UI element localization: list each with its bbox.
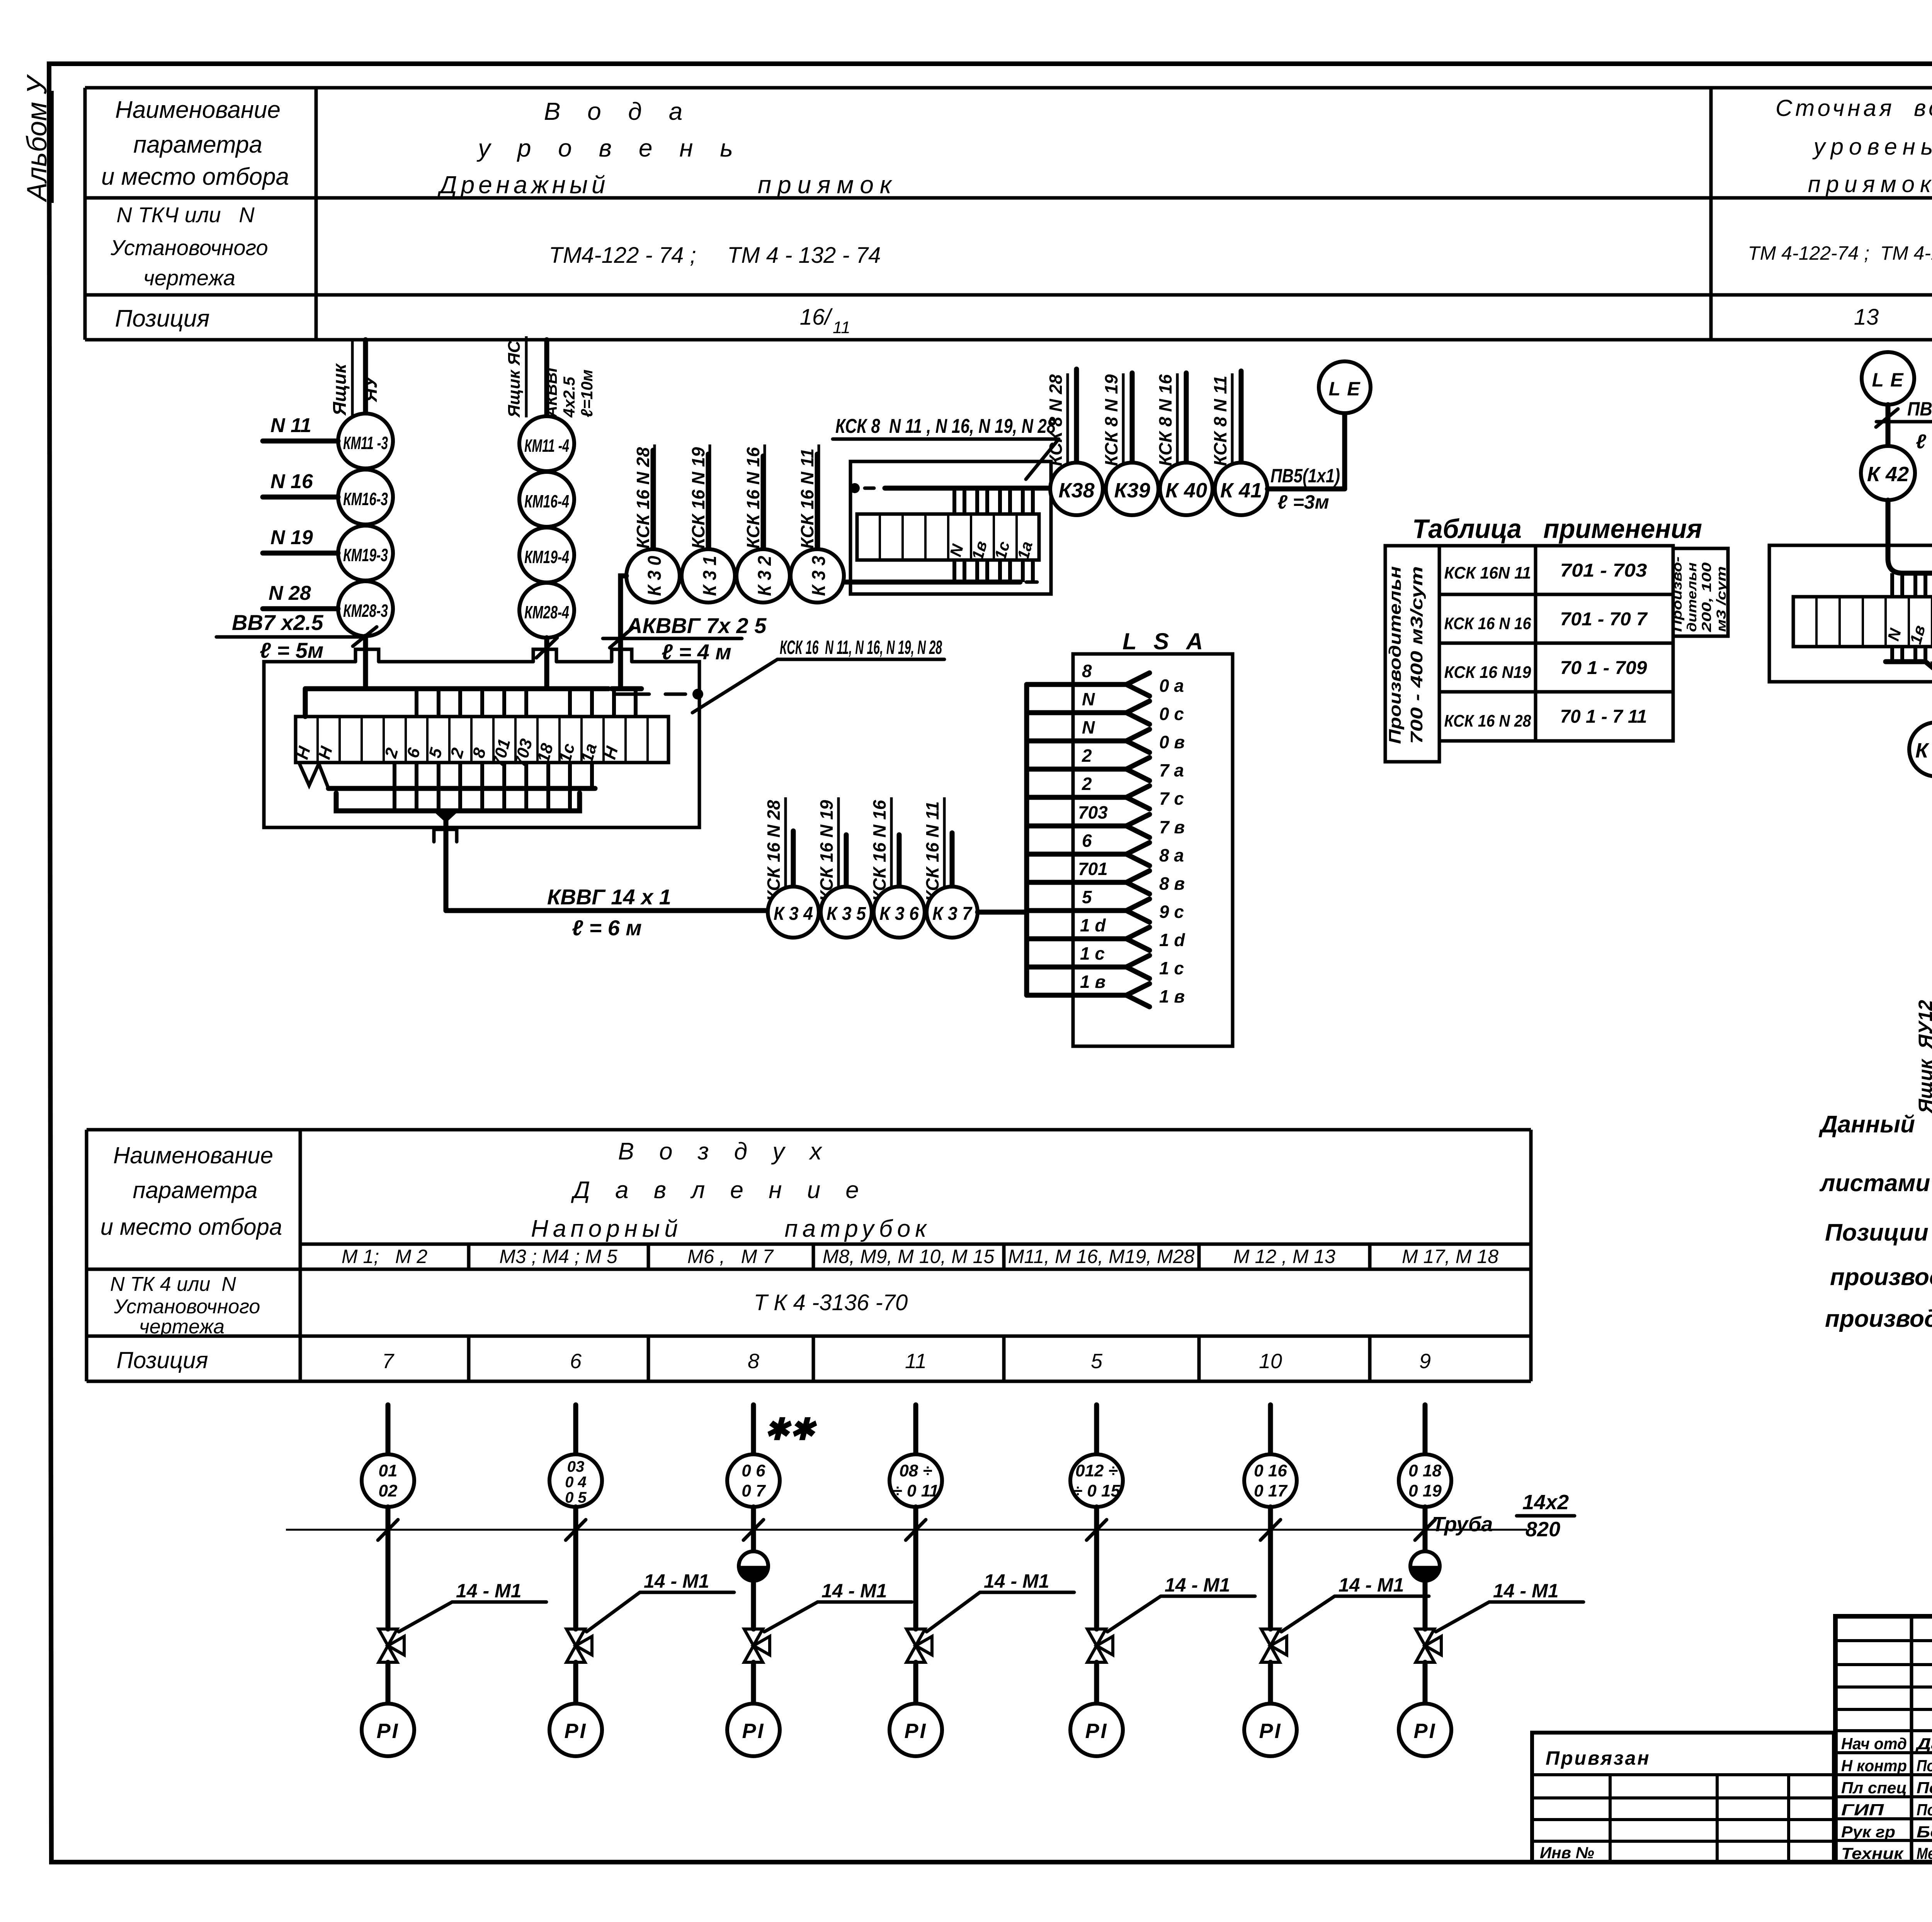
svg-text:N: N [1082, 717, 1095, 737]
svg-text:В о з д у х: В о з д у х [618, 1138, 831, 1165]
svg-text:и место отбора: и место отбора [100, 1214, 282, 1240]
svg-text:РI: РI [376, 1719, 399, 1743]
svg-text:ℓ = 3 м: ℓ = 3 м [1916, 431, 1932, 453]
svg-text:КСК 16 N 19: КСК 16 N 19 [816, 800, 837, 902]
svg-text:0 с: 0 с [1159, 704, 1184, 724]
svg-text:14 - М1: 14 - М1 [644, 1570, 709, 1592]
svg-text:М6 , М 7: М6 , М 7 [687, 1246, 774, 1267]
svg-text:8: 8 [1082, 661, 1092, 681]
svg-text:К 3 6: К 3 6 [879, 904, 919, 924]
svg-text:КСК 8 N 16: КСК 8 N 16 [1155, 374, 1175, 466]
svg-text:РI: РI [1085, 1719, 1108, 1743]
svg-text:КСК 16 N 16: КСК 16 N 16 [743, 447, 763, 549]
svg-text:КСК 16 N 16: КСК 16 N 16 [1444, 614, 1531, 633]
svg-text:КСК 16 N 11: КСК 16 N 11 [797, 448, 817, 549]
svg-text:К 3 0: К 3 0 [645, 556, 665, 596]
svg-text:14 - М1: 14 - М1 [1493, 1580, 1559, 1602]
svg-text:012 ÷: 012 ÷ [1075, 1461, 1118, 1480]
svg-text:Привязан: Привязан [1546, 1747, 1651, 1769]
svg-text:14 - М1: 14 - М1 [984, 1570, 1049, 1592]
svg-text:К39: К39 [1114, 479, 1150, 502]
svg-text:параметра: параметра [133, 1177, 258, 1203]
svg-text:8: 8 [748, 1350, 759, 1373]
svg-text:Произво-: Произво- [1670, 557, 1685, 632]
svg-text:В о д а: В о д а [544, 97, 693, 125]
svg-text:0 5: 0 5 [565, 1489, 587, 1506]
svg-text:АКВВГ: АКВВГ [542, 361, 560, 418]
svg-text:2: 2 [1082, 746, 1092, 766]
svg-text:К 41: К 41 [1220, 479, 1262, 502]
svg-text:L Е: L Е [1872, 369, 1904, 391]
svg-text:Инв №: Инв № [1540, 1844, 1594, 1862]
svg-text:ТМ4-122 - 74 ; ТМ 4 - 132: ТМ4-122 - 74 ; ТМ 4 - 132 - 74 [549, 243, 881, 268]
svg-text:К 3 7: К 3 7 [932, 904, 973, 924]
svg-text:16/: 16/ [800, 305, 833, 330]
svg-text:РI: РI [742, 1719, 765, 1743]
svg-text:1 в: 1 в [1159, 986, 1185, 1006]
svg-text:К 3 5: К 3 5 [827, 904, 866, 924]
svg-text:200, 100: 200, 100 [1699, 562, 1714, 632]
svg-text:АКВВГ 7х 2 5: АКВВГ 7х 2 5 [626, 613, 767, 638]
svg-text:Д а в л е н и е: Д а в л е н и е [571, 1177, 868, 1204]
svg-text:КМ16-3: КМ16-3 [343, 489, 388, 509]
svg-text:5: 5 [1082, 887, 1092, 907]
svg-text:КСК 16 N 16: КСК 16 N 16 [869, 800, 889, 902]
svg-text:9 с: 9 с [1159, 902, 1184, 922]
svg-text:КВВГ 14 х 1: КВВГ 14 х 1 [547, 885, 671, 909]
svg-text:Боева: Боева [1917, 1823, 1932, 1841]
svg-text:Установочного: Установочного [110, 235, 268, 260]
svg-text:дительн: дительн [1685, 562, 1699, 632]
svg-text:03: 03 [567, 1458, 585, 1475]
svg-text:Техник: Техник [1841, 1844, 1904, 1862]
svg-text:7 в: 7 в [1159, 817, 1185, 837]
svg-text:приямок: приямок [1808, 171, 1932, 197]
svg-text:ВВ7 х2.5: ВВ7 х2.5 [232, 610, 323, 635]
svg-text:Наименование: Наименование [113, 1142, 273, 1168]
svg-text:11: 11 [833, 318, 850, 337]
svg-text:КМ16-4: КМ16-4 [524, 491, 569, 511]
svg-text:Меновщикова: Меновщикова [1917, 1844, 1932, 1862]
svg-text:Ящик: Ящик [330, 363, 350, 416]
svg-text:Н контр: Н контр [1841, 1757, 1907, 1775]
svg-text:0 4: 0 4 [565, 1474, 587, 1491]
svg-text:701 - 703: 701 - 703 [1560, 560, 1647, 581]
svg-text:701: 701 [1078, 859, 1108, 879]
svg-text:КСК 8 N 11: КСК 8 N 11 [1210, 376, 1230, 466]
svg-text:М 17, М 18: М 17, М 18 [1402, 1246, 1498, 1267]
svg-text:КМ11 -3: КМ11 -3 [343, 433, 388, 453]
svg-text:чертежа: чертежа [143, 266, 235, 290]
svg-text:ℓ = 5м: ℓ = 5м [260, 638, 323, 662]
svg-text:М3 ; М4 ; М 5: М3 ; М4 ; М 5 [499, 1246, 617, 1267]
svg-text:÷ 0 11: ÷ 0 11 [893, 1481, 939, 1500]
svg-text:КМ19-3: КМ19-3 [343, 545, 388, 565]
svg-text:Труба: Труба [1432, 1513, 1493, 1536]
svg-text:КСК 8 N 28: КСК 8 N 28 [1046, 374, 1066, 466]
svg-text:Дренажный: Дренажный [437, 171, 609, 199]
svg-text:уровень: уровень [1812, 134, 1932, 160]
svg-text:КСК 16 N 28: КСК 16 N 28 [764, 800, 784, 902]
svg-text:ℓ =3м: ℓ =3м [1277, 491, 1329, 513]
svg-text:700 - 400 м3/сут: 700 - 400 м3/сут [1407, 566, 1426, 744]
svg-text:К 3 1: К 3 1 [700, 556, 720, 596]
svg-text:0 7: 0 7 [742, 1481, 766, 1500]
svg-text:Таблица применения: Таблица применения [1412, 514, 1702, 544]
svg-text:РI: РI [904, 1719, 927, 1743]
svg-text:70 1 - 7 11: 70 1 - 7 11 [1560, 706, 1647, 727]
svg-text:4х2.5: 4х2.5 [560, 376, 578, 418]
svg-text:2: 2 [1082, 774, 1092, 794]
svg-text:производительности 200 , 10: производительности 200 , 100 [1825, 1306, 1932, 1332]
svg-text:Данилов: Данилов [1915, 1735, 1932, 1753]
svg-text:9: 9 [1419, 1350, 1431, 1373]
svg-text:6: 6 [570, 1350, 582, 1373]
svg-text:14 - М1: 14 - М1 [1338, 1574, 1404, 1596]
svg-text:703: 703 [1078, 802, 1108, 822]
svg-text:1 в: 1 в [1080, 972, 1105, 992]
svg-text:N 16: N 16 [270, 470, 313, 493]
svg-text:Ящик ЯС: Ящик ЯС [505, 340, 524, 418]
svg-text:ЯУ: ЯУ [361, 375, 381, 403]
svg-text:N ТК 4 или N: N ТК 4 или N [110, 1273, 236, 1296]
svg-text:КМ28-4: КМ28-4 [524, 602, 569, 622]
svg-text:и место отбора: и место отбора [101, 163, 289, 190]
svg-text:14 - М1: 14 - М1 [456, 1580, 522, 1602]
svg-text:5: 5 [1091, 1350, 1103, 1373]
svg-text:КСК 16 N 11: КСК 16 N 11 [922, 801, 942, 902]
svg-text:КМ11 -4: КМ11 -4 [524, 436, 569, 456]
svg-text:Пл спец: Пл спец [1841, 1779, 1907, 1797]
svg-text:Позиции приборов в числи: Позиции приборов в числителе (соответств… [1825, 1219, 1932, 1246]
svg-text:К 42: К 42 [1867, 463, 1909, 486]
svg-text:ПВ5(1х1): ПВ5(1х1) [1270, 465, 1340, 487]
svg-text:ПВ5(1х1): ПВ5(1х1) [1907, 398, 1932, 420]
svg-text:К 40: К 40 [1165, 479, 1207, 502]
svg-text:10: 10 [1259, 1350, 1282, 1373]
svg-text:0 18: 0 18 [1408, 1461, 1442, 1480]
svg-text:М11, М 16, М19, М28: М11, М 16, М19, М28 [1008, 1246, 1195, 1267]
svg-text:N 19: N 19 [270, 526, 313, 549]
svg-text:8 а: 8 а [1159, 845, 1184, 865]
svg-text:0 в: 0 в [1159, 732, 1185, 752]
svg-text:0 19: 0 19 [1408, 1481, 1442, 1500]
svg-text:Польцман: Польцман [1917, 1779, 1932, 1797]
svg-text:14 - М1: 14 - М1 [1165, 1574, 1230, 1596]
svg-text:КМ28-3: КМ28-3 [343, 601, 388, 621]
svg-text:Сточная вода: Сточная вода [1776, 95, 1932, 121]
svg-text:0 17: 0 17 [1254, 1481, 1288, 1500]
svg-text:Позиция: Позиция [115, 305, 209, 332]
svg-text:Позиция: Позиция [116, 1347, 208, 1373]
svg-text:КМ19-4: КМ19-4 [524, 547, 569, 567]
svg-text:1 d: 1 d [1080, 915, 1106, 935]
svg-text:К 3 2: К 3 2 [755, 556, 775, 596]
svg-text:патрубок: патрубок [785, 1216, 931, 1242]
svg-text:70 1 - 709: 70 1 - 709 [1560, 658, 1647, 678]
svg-text:РI: РI [564, 1719, 587, 1743]
svg-text:1 с: 1 с [1159, 958, 1184, 978]
svg-text:Ящик ЯУ12: Ящик ЯУ12 [1915, 1000, 1932, 1114]
svg-text:14х2: 14х2 [1522, 1491, 1569, 1514]
svg-text:производительности 700, 400: производительности 700, 400 [1830, 1264, 1932, 1290]
svg-text:РI: РI [1259, 1719, 1282, 1743]
svg-text:6: 6 [1082, 831, 1092, 851]
svg-text:0 а: 0 а [1159, 676, 1184, 696]
svg-text:КСК 16 N 11, N 16, N 19, N 28: КСК 16 N 11, N 16, N 19, N 28 [780, 637, 942, 658]
svg-text:КСК 16 N 28: КСК 16 N 28 [633, 447, 653, 549]
svg-text:КСК 16 N 28: КСК 16 N 28 [1444, 712, 1531, 730]
svg-text:КСК 16 N 19: КСК 16 N 19 [688, 447, 708, 549]
svg-text:КСК 8 N 19: КСК 8 N 19 [1101, 374, 1121, 466]
svg-text:параметра: параметра [133, 131, 262, 158]
svg-text:ℓ=10м: ℓ=10м [578, 369, 596, 417]
svg-text:КСК 16 N19: КСК 16 N19 [1444, 663, 1531, 682]
svg-text:К 3 3: К 3 3 [809, 556, 829, 596]
svg-text:1 d: 1 d [1159, 930, 1185, 950]
svg-text:1 с: 1 с [1080, 943, 1105, 964]
svg-text:у р о в е н ь: у р о в е н ь [476, 134, 743, 162]
svg-text:Напорный: Напорный [531, 1216, 682, 1242]
svg-text:Данный лист читать со: Данный лист читать совместно с [1818, 1111, 1932, 1138]
svg-text:Т К 4 -3136 -70: Т К 4 -3136 -70 [754, 1290, 908, 1315]
svg-text:L Е: L Е [1329, 378, 1361, 400]
svg-text:7 с: 7 с [1159, 788, 1184, 809]
svg-text:0 16: 0 16 [1254, 1461, 1287, 1480]
svg-text:08 ÷: 08 ÷ [899, 1461, 932, 1480]
svg-text:÷ 0 15: ÷ 0 15 [1073, 1481, 1121, 1500]
svg-text:8 в: 8 в [1159, 873, 1185, 894]
svg-text:К 21: К 21 [1915, 739, 1932, 762]
svg-text:N: N [1082, 689, 1095, 709]
svg-text:Альбом У: Альбом У [22, 74, 53, 203]
svg-text:Рук гр: Рук гр [1841, 1823, 1895, 1841]
svg-text:КСК 8 N 11 , N 16, N 19, N 28: КСК 8 N 11 , N 16, N 19, N 28 [835, 415, 1056, 438]
svg-text:приямок: приямок [758, 171, 898, 199]
svg-text:13: 13 [1854, 305, 1879, 330]
svg-text:7 а: 7 а [1159, 760, 1184, 780]
svg-text:L S А: L S А [1122, 628, 1208, 654]
svg-text:11: 11 [905, 1350, 927, 1373]
svg-text:7: 7 [382, 1350, 395, 1373]
svg-text:К38: К38 [1058, 479, 1094, 502]
svg-text:М 12 , М 13: М 12 , М 13 [1233, 1246, 1335, 1267]
svg-text:Постн Ккова: Постн Ккова [1917, 1757, 1932, 1775]
svg-text:N ТКЧ или N: N ТКЧ или N [116, 203, 255, 227]
svg-text:✱✱: ✱✱ [764, 1412, 817, 1446]
svg-text:ГИП: ГИП [1841, 1801, 1884, 1819]
svg-text:чертежа: чертежа [139, 1316, 224, 1338]
svg-text:N 28: N 28 [269, 582, 311, 604]
svg-text:ТМ 4-122-74 ; ТМ 4-132 - 74: ТМ 4-122-74 ; ТМ 4-132 - 74 [1748, 242, 1932, 264]
svg-text:Производительн: Производительн [1386, 566, 1405, 744]
svg-text:Нач отд: Нач отд [1841, 1735, 1907, 1753]
svg-text:М 1; М 2: М 1; М 2 [342, 1246, 427, 1267]
svg-text:02: 02 [379, 1481, 398, 1500]
svg-text:ℓ = 6 м: ℓ = 6 м [572, 916, 642, 940]
svg-text:701 - 70 7: 701 - 70 7 [1560, 609, 1648, 630]
svg-text:м3 /сут: м3 /сут [1714, 566, 1729, 632]
svg-text:0 6: 0 6 [742, 1461, 765, 1480]
svg-text:Установочного: Установочного [114, 1296, 260, 1318]
svg-text:КСК 16N 11: КСК 16N 11 [1444, 563, 1531, 582]
svg-text:К 3 4: К 3 4 [774, 904, 813, 924]
svg-text:14 - М1: 14 - М1 [821, 1580, 887, 1602]
svg-text:листами АТХ -5, АТХ-7: листами АТХ -5, АТХ-7 [1819, 1170, 1932, 1197]
svg-text:N 11: N 11 [270, 414, 311, 437]
svg-text:РI: РI [1413, 1719, 1436, 1743]
svg-text:Наименование: Наименование [115, 97, 281, 123]
svg-text:Постникова: Постникова [1917, 1801, 1932, 1819]
svg-text:М8, М9, М 10, М 15: М8, М9, М 10, М 15 [823, 1246, 995, 1267]
svg-text:01: 01 [379, 1461, 398, 1480]
svg-text:820: 820 [1526, 1518, 1560, 1541]
